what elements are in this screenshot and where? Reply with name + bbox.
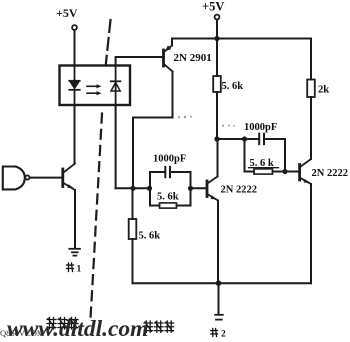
svg-text:5. 6k: 5. 6k — [222, 81, 244, 92]
ground 1 — [69, 249, 80, 256]
bottom rail — [133, 282, 312, 284]
svg-text:1: 1 — [77, 265, 82, 275]
resistor R5 5.6k (pull-down) — [129, 188, 137, 283]
terminal circle left +5V — [72, 25, 77, 30]
wire opto bottom-left pin down to Q1 collector — [74, 105, 76, 163]
svg-text:www.dltdl.com: www.dltdl.com — [7, 316, 148, 342]
resistor R4 5.6k (combo1) — [150, 203, 191, 208]
wire Q2 emitter to +5V rail — [171, 39, 173, 46]
junction main node — [130, 186, 135, 191]
svg-text:2N 2222: 2N 2222 — [221, 185, 257, 196]
transistor Q4 2N2222 (right) — [300, 159, 311, 184]
svg-text:5. 6k: 5. 6k — [157, 192, 179, 203]
resistor R2 5.6k (combo2) — [245, 169, 286, 174]
label 接收机 (receiver) — [144, 321, 174, 332]
optocoupler U1 box — [60, 66, 131, 106]
junction ground 2 — [216, 280, 222, 286]
wire opto top-right pin to 2N2901 base — [116, 57, 163, 66]
label 地2 — [211, 329, 226, 340]
resistor R1 5.6k (from +5V) — [213, 39, 221, 140]
wire Q4 collector up to 2k — [310, 97, 312, 159]
node collector Q3 junction — [214, 136, 219, 141]
transistor Q3 2N2222 (middle) — [207, 177, 218, 201]
label 地1 — [67, 263, 82, 275]
wire Q3 emitter down — [217, 201, 219, 284]
wire Q2 collector down — [133, 72, 173, 189]
wire node to combo2 — [217, 138, 245, 140]
LED inside optocoupler — [69, 66, 79, 106]
+5V rail — [172, 38, 311, 40]
wire Q3 base — [191, 187, 207, 189]
wire Q3 collector up — [217, 139, 219, 177]
transistor Q1 (driver) — [63, 164, 75, 191]
transistor Q2 2N2901 — [164, 45, 173, 71]
label 发射机 (transmitter) — [47, 318, 78, 330]
node combo1 right — [188, 186, 193, 191]
svg-text:1000pF: 1000pF — [153, 154, 186, 165]
terminal circle middle +5V — [215, 15, 220, 20]
wire Q1 emitter to ground 1 — [74, 190, 76, 249]
svg-text:1000pF: 1000pF — [244, 122, 277, 133]
combo1 frame wires — [150, 172, 191, 206]
main node wire — [116, 187, 150, 189]
node combo2 right — [282, 169, 287, 174]
light arrows — [87, 84, 102, 95]
scan smudge dots — [178, 116, 235, 127]
capacitor C1 1000pF — [150, 167, 191, 177]
wire opto bottom-right pin down to node row — [115, 105, 117, 188]
wire gate to Q1 base — [30, 177, 62, 179]
wire +5V terminal to rail — [216, 20, 218, 39]
junction dot on rail — [214, 36, 219, 41]
node combo2 left — [242, 136, 247, 141]
dashed separator line (upper) — [106, 20, 111, 65]
svg-text:+5V: +5V — [202, 0, 224, 14]
wire to Q4 base — [285, 171, 299, 173]
dashed separator line (lower) — [91, 114, 103, 319]
label R2 5.6k — [249, 158, 279, 169]
wire to ground 2 — [218, 283, 220, 313]
ground 2 — [215, 315, 223, 320]
capacitor C2 1000pF — [245, 134, 286, 145]
svg-text:2: 2 — [221, 330, 226, 340]
svg-text:2N 2222: 2N 2222 — [312, 168, 348, 179]
svg-text:5. 6k: 5. 6k — [139, 231, 161, 242]
svg-text:2N 2901: 2N 2901 — [174, 52, 212, 64]
photodiode inside optocoupler — [111, 66, 121, 106]
logic gate G1 — [3, 167, 30, 190]
svg-text:2k: 2k — [318, 85, 329, 96]
wire +5V to optocoupler — [74, 30, 76, 66]
resistor R3 2k — [307, 39, 315, 98]
combo2 frame wires — [245, 139, 286, 172]
svg-text:+5V: +5V — [56, 6, 78, 20]
wire Q4 emitter down — [310, 184, 312, 283]
node combo1 left — [147, 186, 152, 191]
